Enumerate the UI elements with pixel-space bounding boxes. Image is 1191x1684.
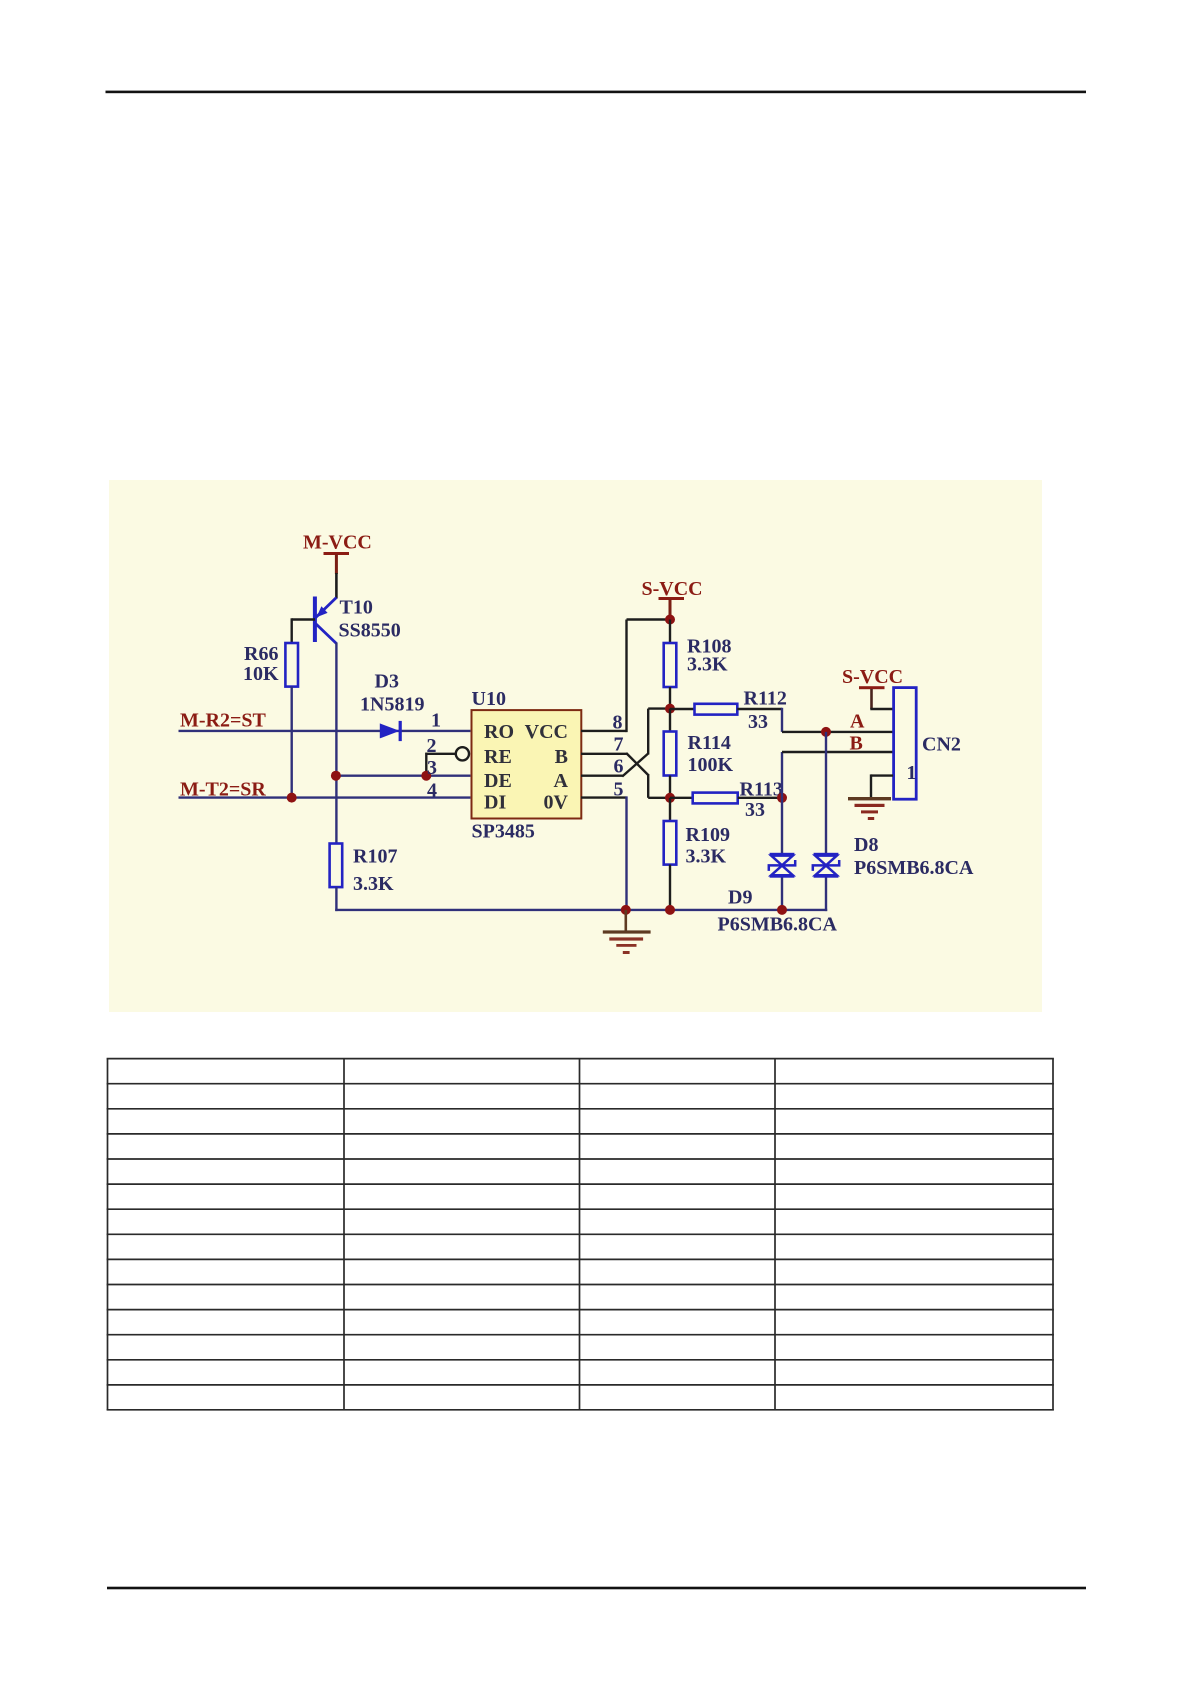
svg-text:S-VCC: S-VCC <box>842 666 903 688</box>
svg-text:D8: D8 <box>854 834 878 856</box>
svg-text:33: 33 <box>745 799 765 821</box>
wire <box>179 730 471 732</box>
svg-text:R107: R107 <box>353 846 397 868</box>
svg-text:R112: R112 <box>744 688 787 710</box>
wire <box>782 708 893 732</box>
wire <box>781 798 783 853</box>
wire CN2 pin1 <box>871 774 893 798</box>
wire <box>781 878 783 912</box>
svg-text:M-R2=ST: M-R2=ST <box>180 710 267 732</box>
svg-text:SP3485: SP3485 <box>472 821 535 843</box>
resistor R109 <box>664 798 730 911</box>
junction <box>777 905 787 915</box>
svg-text:DI: DI <box>484 792 506 814</box>
wire pin6 <box>581 709 670 777</box>
wire <box>335 643 337 844</box>
wire <box>825 732 827 853</box>
svg-text:R109: R109 <box>686 824 730 846</box>
svg-text:3.3K: 3.3K <box>686 846 727 868</box>
junction <box>777 793 787 803</box>
svg-text:R113: R113 <box>740 779 783 801</box>
wire <box>292 618 315 620</box>
svg-text:100K: 100K <box>688 754 734 776</box>
svg-text:S-VCC: S-VCC <box>642 578 703 600</box>
svg-text:B: B <box>555 746 568 768</box>
resistor R108 <box>664 620 732 709</box>
svg-text:SS8550: SS8550 <box>339 620 401 642</box>
svg-text:1: 1 <box>907 762 917 784</box>
svg-text:D9: D9 <box>728 887 752 909</box>
wire <box>179 796 471 798</box>
resistor R107 <box>330 844 398 896</box>
IC U10 SP3485 <box>472 688 582 843</box>
svg-text:U10: U10 <box>472 688 506 710</box>
svg-text:T10: T10 <box>340 597 373 619</box>
wire ground bus <box>335 909 827 911</box>
svg-text:4: 4 <box>427 780 437 802</box>
svg-text:D3: D3 <box>375 671 399 693</box>
svg-text:P6SMB6.8CA: P6SMB6.8CA <box>854 857 974 879</box>
junction <box>621 905 631 915</box>
svg-text:RE: RE <box>484 746 512 768</box>
ground <box>603 910 651 954</box>
schematic background <box>109 480 1042 1012</box>
svg-text:7: 7 <box>614 734 624 756</box>
svg-text:1N5819: 1N5819 <box>360 694 424 716</box>
wire <box>291 687 293 798</box>
junction node A <box>821 727 831 737</box>
svg-text:R114: R114 <box>688 732 731 754</box>
svg-text:DE: DE <box>484 770 512 792</box>
pin 2 bubble <box>456 747 469 760</box>
junction <box>421 771 431 781</box>
junction <box>665 704 675 714</box>
wire <box>335 887 337 911</box>
svg-text:2: 2 <box>427 735 437 757</box>
svg-text:10K: 10K <box>243 663 279 685</box>
TVS diode D8 <box>813 834 974 879</box>
svg-text:6: 6 <box>614 756 624 778</box>
svg-text:CN2: CN2 <box>922 734 961 756</box>
wire pin5 <box>581 796 627 911</box>
resistor R114 <box>664 709 734 798</box>
junction <box>665 615 675 625</box>
svg-text:RO: RO <box>484 721 514 743</box>
svg-text:1: 1 <box>431 710 441 732</box>
node S-VCC <box>642 578 703 620</box>
resistor R113 <box>670 779 783 822</box>
resistor R66 <box>243 643 298 687</box>
diode D9 labels <box>718 887 838 936</box>
node S-VCC at CN2 <box>842 666 903 709</box>
wire <box>335 573 338 599</box>
svg-text:A: A <box>554 770 569 792</box>
wire <box>291 618 293 642</box>
svg-text:3: 3 <box>427 757 437 779</box>
svg-text:P6SMB6.8CA: P6SMB6.8CA <box>718 914 838 936</box>
node M-VCC <box>303 532 372 575</box>
svg-text:3.3K: 3.3K <box>687 654 728 676</box>
resistor R112 <box>670 688 787 734</box>
svg-text:3.3K: 3.3K <box>353 873 394 895</box>
diode D3 <box>360 671 424 742</box>
wire <box>825 878 827 912</box>
bottom rule <box>107 1587 1086 1590</box>
wire node B <box>782 752 893 798</box>
svg-text:0V: 0V <box>544 792 569 814</box>
table <box>107 1059 1054 1410</box>
junction <box>287 793 297 803</box>
wire pin7 <box>581 753 670 798</box>
TVS diode D9 <box>769 853 795 878</box>
svg-text:M-VCC: M-VCC <box>303 532 372 554</box>
ground at CN2 <box>848 797 891 820</box>
wire pin8 <box>581 620 670 733</box>
top rule <box>106 91 1087 94</box>
wire <box>335 775 471 777</box>
svg-text:A: A <box>850 711 865 733</box>
transistor Q T10 <box>313 597 401 644</box>
junction <box>665 793 675 803</box>
svg-text:VCC: VCC <box>525 721 568 743</box>
svg-text:R66: R66 <box>244 643 278 665</box>
junction <box>331 771 341 781</box>
junction <box>665 905 675 915</box>
connector CN2 <box>894 688 961 800</box>
svg-text:33: 33 <box>748 711 768 733</box>
wire <box>426 753 456 776</box>
